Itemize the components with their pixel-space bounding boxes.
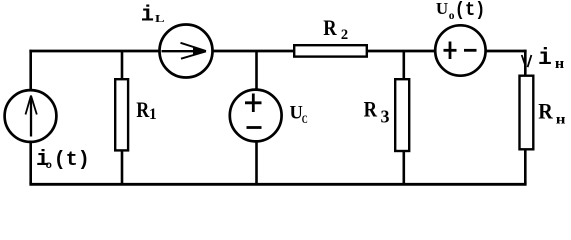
current source I0 arrow bbox=[30, 97, 32, 137]
wire UC branch vertical bbox=[255, 51, 258, 184]
UC minus sign bbox=[247, 126, 262, 129]
current source iL arrow bbox=[162, 50, 206, 52]
current source iL circle bbox=[160, 25, 213, 78]
UC plus sign bbox=[245, 101, 262, 104]
svg-text:н: н bbox=[556, 112, 566, 127]
svg-text:3: 3 bbox=[381, 107, 390, 127]
svg-text:(t): (t) bbox=[54, 149, 90, 172]
svg-text:L: L bbox=[155, 14, 165, 25]
wire bottom horizontal bbox=[29, 183, 526, 186]
svg-text:i: i bbox=[538, 45, 552, 71]
svg-text:U: U bbox=[436, 0, 448, 18]
svg-text:н: н bbox=[555, 56, 565, 72]
svg-text:1: 1 bbox=[149, 106, 157, 123]
svg-text:o: o bbox=[46, 160, 52, 172]
svg-text:i: i bbox=[141, 2, 154, 27]
U0 minus sign bbox=[464, 49, 477, 52]
wire R1 branch vertical bbox=[121, 51, 124, 184]
resistor R1 body bbox=[115, 79, 128, 150]
svg-text:(t): (t) bbox=[455, 0, 486, 21]
svg-text:C: C bbox=[302, 114, 308, 126]
svg-text:R: R bbox=[323, 15, 337, 40]
wire top horizontal bbox=[29, 50, 526, 53]
voltage source UC circle bbox=[230, 90, 282, 142]
resistor R3 body bbox=[395, 79, 409, 151]
wire left vertical bbox=[29, 50, 32, 185]
current in arrow head bbox=[522, 55, 526, 67]
wire right vertical bbox=[524, 50, 527, 185]
current source I0 circle bbox=[5, 90, 57, 142]
svg-text:R: R bbox=[364, 96, 378, 121]
resistor Rn body bbox=[520, 76, 534, 150]
svg-text:2: 2 bbox=[341, 27, 348, 43]
resistor R2 body bbox=[294, 45, 367, 56]
voltage source U0 circle bbox=[435, 25, 485, 75]
svg-text:R: R bbox=[538, 98, 554, 123]
wire R3 branch vertical bbox=[402, 51, 405, 184]
U0 plus sign bbox=[444, 49, 457, 52]
